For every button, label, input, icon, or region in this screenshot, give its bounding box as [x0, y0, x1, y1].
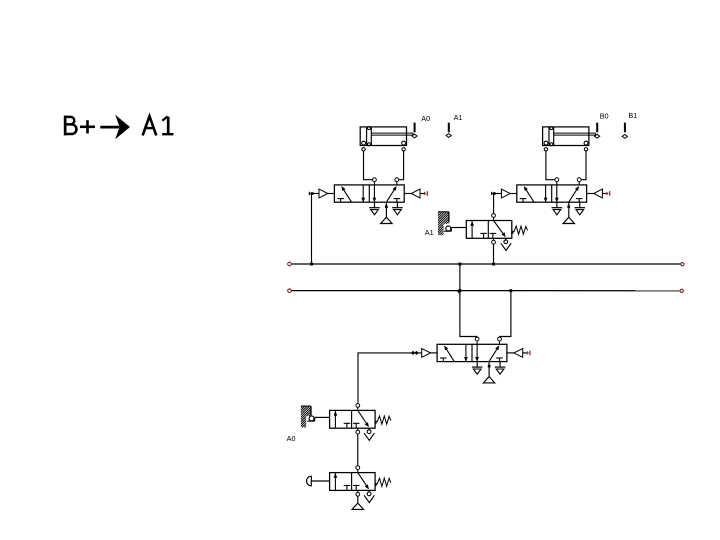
label A0: [287, 434, 296, 443]
pushbutton actuator of S1: [307, 476, 330, 486]
junction on P1 at V1 pilot drop: [310, 263, 313, 266]
wire cyl B left port to V2 port 4: [546, 151, 555, 180]
valve V1 5/2-way double-pilot: [334, 178, 404, 224]
label A1: [425, 228, 434, 237]
connector diamonds on V3 pilot wire: [411, 351, 419, 355]
roller actuator of valve A0: [307, 416, 329, 421]
cam block of valve A1: [414, 211, 473, 235]
cylinder A (double-acting): [360, 127, 413, 151]
position mark B0: [595, 111, 609, 138]
position mark B1: [622, 111, 637, 138]
pilot left of V1: [309, 189, 334, 198]
pilot right of V3: [507, 349, 527, 358]
position mark A1: [446, 113, 462, 137]
pressure rail P1: [288, 262, 684, 266]
valve V2 5/2-way double-pilot: [517, 178, 587, 224]
valve A0 3/2-way roller: [330, 404, 376, 441]
pilot left of V3: [412, 349, 437, 358]
svg-text:A0: A0: [421, 114, 430, 123]
connection arrow right of V2: [606, 191, 609, 196]
wire valve A0 inlet to start valve outlet: [357, 434, 359, 465]
wire cyl A right port to V1 port 2: [399, 151, 404, 180]
roller actuator of valve A1: [444, 226, 466, 231]
wire cyl A left port to V1 port 4: [364, 151, 373, 180]
wire V1 pilot to rail P1: [311, 192, 314, 262]
spring of valve A1: [511, 226, 527, 234]
junction on P2 at V3 port 2 riser: [509, 289, 512, 292]
connection arrow right of V1: [424, 191, 427, 196]
spring of valve S1: [375, 478, 391, 486]
pressure source under S1: [352, 496, 363, 510]
wire cyl B right port to V2 port 2: [581, 151, 586, 180]
svg-text:A1: A1: [425, 228, 434, 237]
cam block of valve A0: [279, 406, 333, 428]
pilot right of V2: [587, 189, 607, 198]
pilot right of V1: [404, 189, 424, 198]
wire rail P2 to V3 port 2: [500, 291, 511, 337]
valve V3 5/2-way double-pilot: [437, 337, 507, 383]
svg-text:A0: A0: [287, 434, 296, 443]
wire V2 pilot to valve A1 outlet: [493, 192, 496, 213]
pressure rail P2: [288, 289, 684, 293]
junction on P2 at V3 feed: [458, 289, 461, 292]
wire V3 pilot to valve A0 outlet: [358, 353, 412, 403]
wire rail P1 to V3 port 4: [458, 264, 477, 337]
cylinder B (double-acting): [543, 127, 596, 151]
connection arrow right of V3: [527, 351, 530, 356]
valve A1 3/2-way roller: [466, 214, 512, 251]
svg-text:A1: A1: [454, 113, 463, 122]
junction on P1 at V3 feed: [458, 263, 461, 266]
spring of valve A0: [375, 416, 391, 424]
junction on P1 at valve A1 drop: [492, 263, 495, 266]
valve S1 3/2-way pushbutton: [330, 466, 376, 503]
svg-text:B1: B1: [628, 111, 637, 120]
pilot left of V2: [492, 189, 517, 198]
svg-text:B0: B0: [600, 111, 609, 120]
position mark A0: [412, 114, 430, 138]
title text B+ -> A1: [64, 115, 174, 140]
wire valve A1 inlet to rail P1: [493, 245, 495, 263]
